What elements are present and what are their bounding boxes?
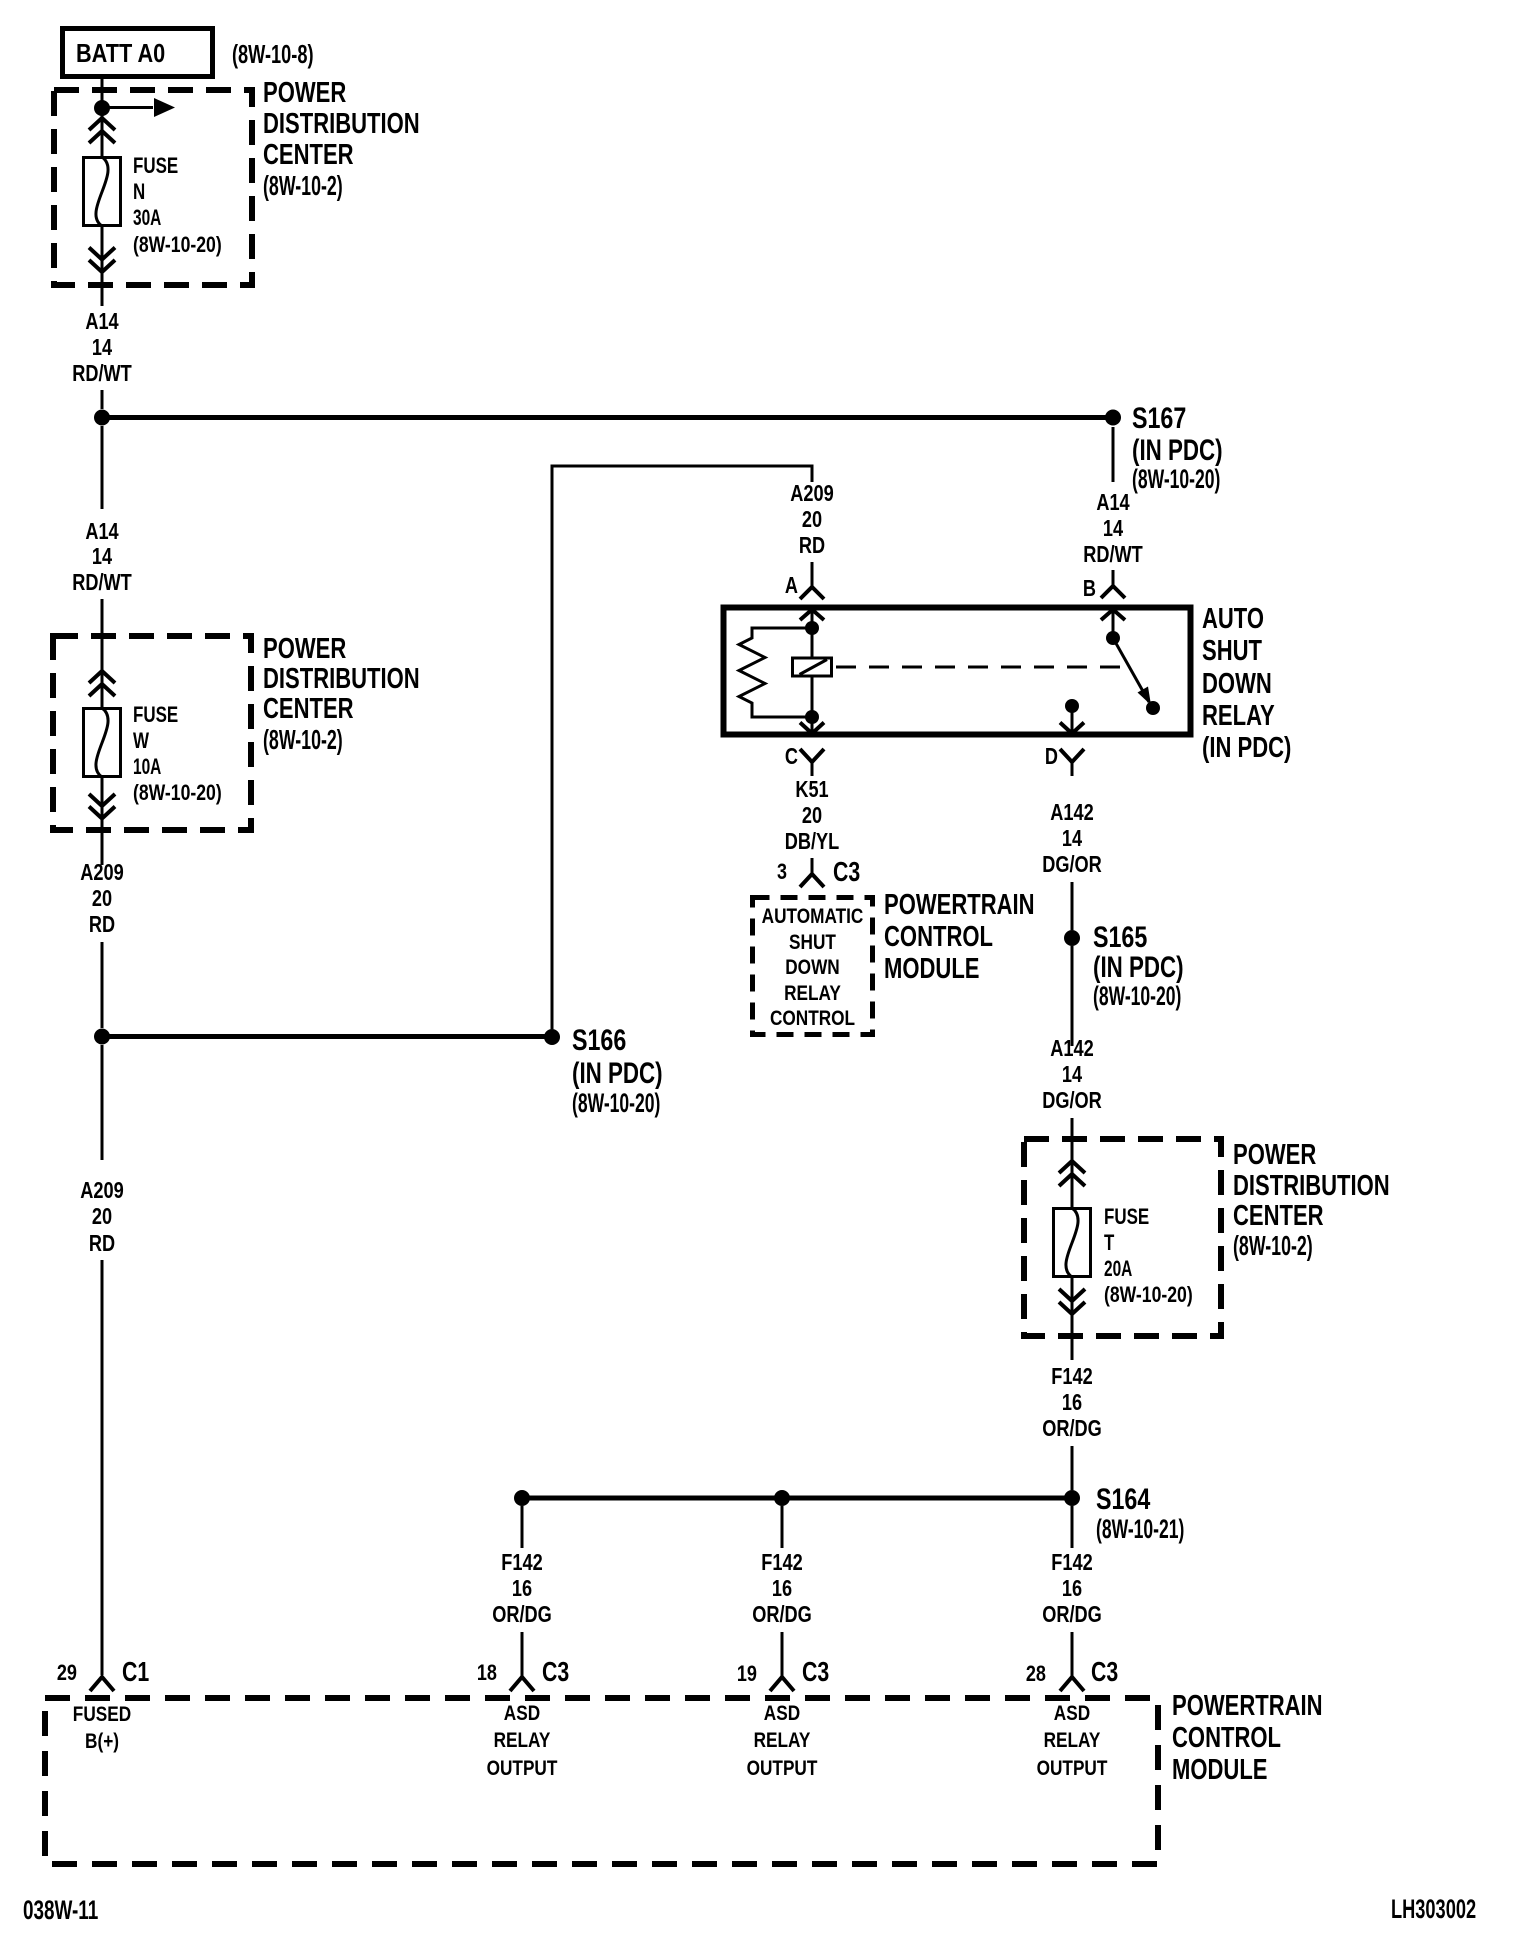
svg-text:F142: F142 (761, 1549, 802, 1575)
svg-text:(8W-10-20): (8W-10-20) (1104, 1282, 1193, 1307)
svg-text:BATT A0: BATT A0 (76, 38, 165, 68)
svg-text:14: 14 (92, 334, 112, 360)
svg-text:OUTPUT: OUTPUT (747, 1757, 818, 1780)
svg-text:(IN PDC): (IN PDC) (572, 1057, 663, 1090)
svg-text:OR/DG: OR/DG (752, 1601, 812, 1627)
svg-text:DOWN: DOWN (785, 956, 840, 979)
svg-text:SHUT: SHUT (1202, 635, 1262, 667)
svg-text:20: 20 (802, 506, 822, 532)
svg-text:3: 3 (777, 859, 787, 884)
svg-text:DG/OR: DG/OR (1042, 851, 1102, 877)
svg-text:RELAY: RELAY (1202, 700, 1275, 732)
svg-text:AUTO: AUTO (1202, 603, 1264, 635)
svg-text:C1: C1 (122, 1656, 149, 1687)
svg-text:RD/WT: RD/WT (1083, 541, 1143, 567)
svg-text:(8W-10-20): (8W-10-20) (133, 780, 222, 805)
svg-text:MODULE: MODULE (1172, 1754, 1268, 1786)
svg-text:OR/DG: OR/DG (492, 1601, 552, 1627)
svg-text:20: 20 (802, 802, 822, 828)
svg-text:RELAY: RELAY (1044, 1729, 1101, 1752)
svg-text:16: 16 (1062, 1389, 1082, 1415)
svg-text:S165: S165 (1093, 921, 1147, 954)
svg-text:14: 14 (92, 543, 112, 569)
svg-text:(IN PDC): (IN PDC) (1093, 951, 1184, 984)
svg-text:POWER: POWER (1233, 1139, 1316, 1171)
svg-text:ASD: ASD (504, 1702, 540, 1725)
svg-text:RD: RD (799, 532, 825, 558)
svg-text:(8W-10-20): (8W-10-20) (1132, 464, 1220, 494)
svg-text:AUTOMATIC: AUTOMATIC (762, 905, 864, 928)
svg-text:FUSE: FUSE (133, 153, 178, 178)
svg-text:RD: RD (89, 911, 115, 937)
svg-text:B: B (1083, 575, 1096, 601)
svg-text:DG/OR: DG/OR (1042, 1087, 1102, 1113)
svg-text:(8W-10-2): (8W-10-2) (263, 170, 343, 201)
svg-text:RD: RD (89, 1230, 115, 1256)
svg-text:F142: F142 (1051, 1363, 1092, 1389)
svg-text:A14: A14 (85, 308, 118, 334)
svg-text:ASD: ASD (764, 1702, 800, 1725)
svg-text:RELAY: RELAY (784, 982, 841, 1005)
svg-text:(8W-10-20): (8W-10-20) (133, 232, 222, 257)
svg-text:MODULE: MODULE (884, 953, 980, 985)
svg-text:S166: S166 (572, 1024, 626, 1057)
svg-text:S167: S167 (1132, 402, 1186, 435)
svg-text:19: 19 (737, 1661, 757, 1686)
svg-text:A14: A14 (1096, 489, 1129, 515)
svg-text:F142: F142 (1051, 1549, 1092, 1575)
svg-text:C3: C3 (542, 1656, 569, 1687)
svg-text:16: 16 (512, 1575, 532, 1601)
svg-text:A: A (785, 572, 798, 598)
svg-text:20: 20 (92, 885, 112, 911)
svg-text:S164: S164 (1096, 1483, 1151, 1516)
svg-text:(8W-10-2): (8W-10-2) (263, 724, 343, 755)
svg-text:OUTPUT: OUTPUT (1037, 1757, 1108, 1780)
svg-text:POWER: POWER (263, 633, 346, 665)
svg-text:FUSE: FUSE (133, 702, 178, 727)
svg-text:CONTROL: CONTROL (770, 1007, 855, 1030)
svg-text:DOWN: DOWN (1202, 668, 1272, 700)
svg-text:K51: K51 (795, 776, 828, 802)
svg-text:A209: A209 (80, 859, 124, 885)
svg-text:14: 14 (1062, 825, 1082, 851)
svg-text:CENTER: CENTER (1233, 1200, 1324, 1232)
svg-text:20A: 20A (1104, 1256, 1132, 1281)
svg-text:(8W-10-8): (8W-10-8) (232, 39, 314, 69)
svg-text:(8W-10-21): (8W-10-21) (1096, 1514, 1184, 1544)
svg-text:C: C (785, 743, 798, 769)
svg-text:14: 14 (1062, 1061, 1082, 1087)
svg-text:10A: 10A (133, 754, 161, 779)
svg-text:16: 16 (772, 1575, 792, 1601)
svg-text:RD/WT: RD/WT (72, 569, 132, 595)
svg-text:C3: C3 (802, 1656, 829, 1687)
svg-text:CENTER: CENTER (263, 139, 354, 171)
svg-text:A14: A14 (85, 518, 118, 544)
svg-text:A209: A209 (790, 480, 834, 506)
svg-text:FUSED: FUSED (73, 1703, 131, 1726)
svg-text:OR/DG: OR/DG (1042, 1415, 1102, 1441)
svg-text:B(+): B(+) (85, 1730, 119, 1753)
svg-text:SHUT: SHUT (789, 931, 836, 954)
svg-text:A142: A142 (1050, 1035, 1094, 1061)
svg-text:FUSE: FUSE (1104, 1204, 1149, 1229)
svg-text:LH303002: LH303002 (1391, 1894, 1476, 1924)
svg-text:POWERTRAIN: POWERTRAIN (1172, 1690, 1323, 1722)
svg-text:20: 20 (92, 1203, 112, 1229)
svg-text:F142: F142 (501, 1549, 542, 1575)
svg-text:ASD: ASD (1054, 1702, 1090, 1725)
svg-text:OUTPUT: OUTPUT (487, 1757, 558, 1780)
svg-text:T: T (1104, 1230, 1115, 1255)
svg-text:29: 29 (57, 1660, 77, 1685)
svg-text:(IN PDC): (IN PDC) (1132, 434, 1223, 467)
svg-text:DISTRIBUTION: DISTRIBUTION (263, 663, 420, 695)
svg-text:DISTRIBUTION: DISTRIBUTION (263, 108, 420, 140)
svg-text:POWERTRAIN: POWERTRAIN (884, 889, 1035, 921)
svg-text:CONTROL: CONTROL (884, 921, 993, 953)
svg-text:(8W-10-2): (8W-10-2) (1233, 1230, 1313, 1261)
svg-text:038W-11: 038W-11 (23, 1895, 98, 1925)
svg-text:CONTROL: CONTROL (1172, 1722, 1281, 1754)
svg-text:C3: C3 (1091, 1656, 1118, 1687)
svg-text:POWER: POWER (263, 77, 346, 109)
svg-text:(IN PDC): (IN PDC) (1202, 732, 1291, 764)
svg-text:(8W-10-20): (8W-10-20) (1093, 981, 1181, 1011)
svg-text:30A: 30A (133, 205, 161, 230)
svg-text:18: 18 (477, 1660, 497, 1685)
svg-text:A209: A209 (80, 1177, 124, 1203)
svg-text:14: 14 (1103, 515, 1123, 541)
svg-text:DISTRIBUTION: DISTRIBUTION (1233, 1170, 1390, 1202)
svg-text:C3: C3 (833, 856, 860, 887)
svg-text:(8W-10-20): (8W-10-20) (572, 1088, 660, 1118)
svg-text:28: 28 (1026, 1661, 1046, 1686)
svg-text:CENTER: CENTER (263, 693, 354, 725)
svg-text:OR/DG: OR/DG (1042, 1601, 1102, 1627)
svg-text:RD/WT: RD/WT (72, 360, 132, 386)
svg-text:W: W (133, 728, 149, 753)
svg-text:RELAY: RELAY (754, 1729, 811, 1752)
svg-text:D: D (1045, 743, 1058, 769)
svg-text:A142: A142 (1050, 799, 1094, 825)
svg-text:RELAY: RELAY (494, 1729, 551, 1752)
svg-text:DB/YL: DB/YL (785, 828, 840, 854)
svg-text:16: 16 (1062, 1575, 1082, 1601)
svg-text:N: N (133, 179, 145, 204)
